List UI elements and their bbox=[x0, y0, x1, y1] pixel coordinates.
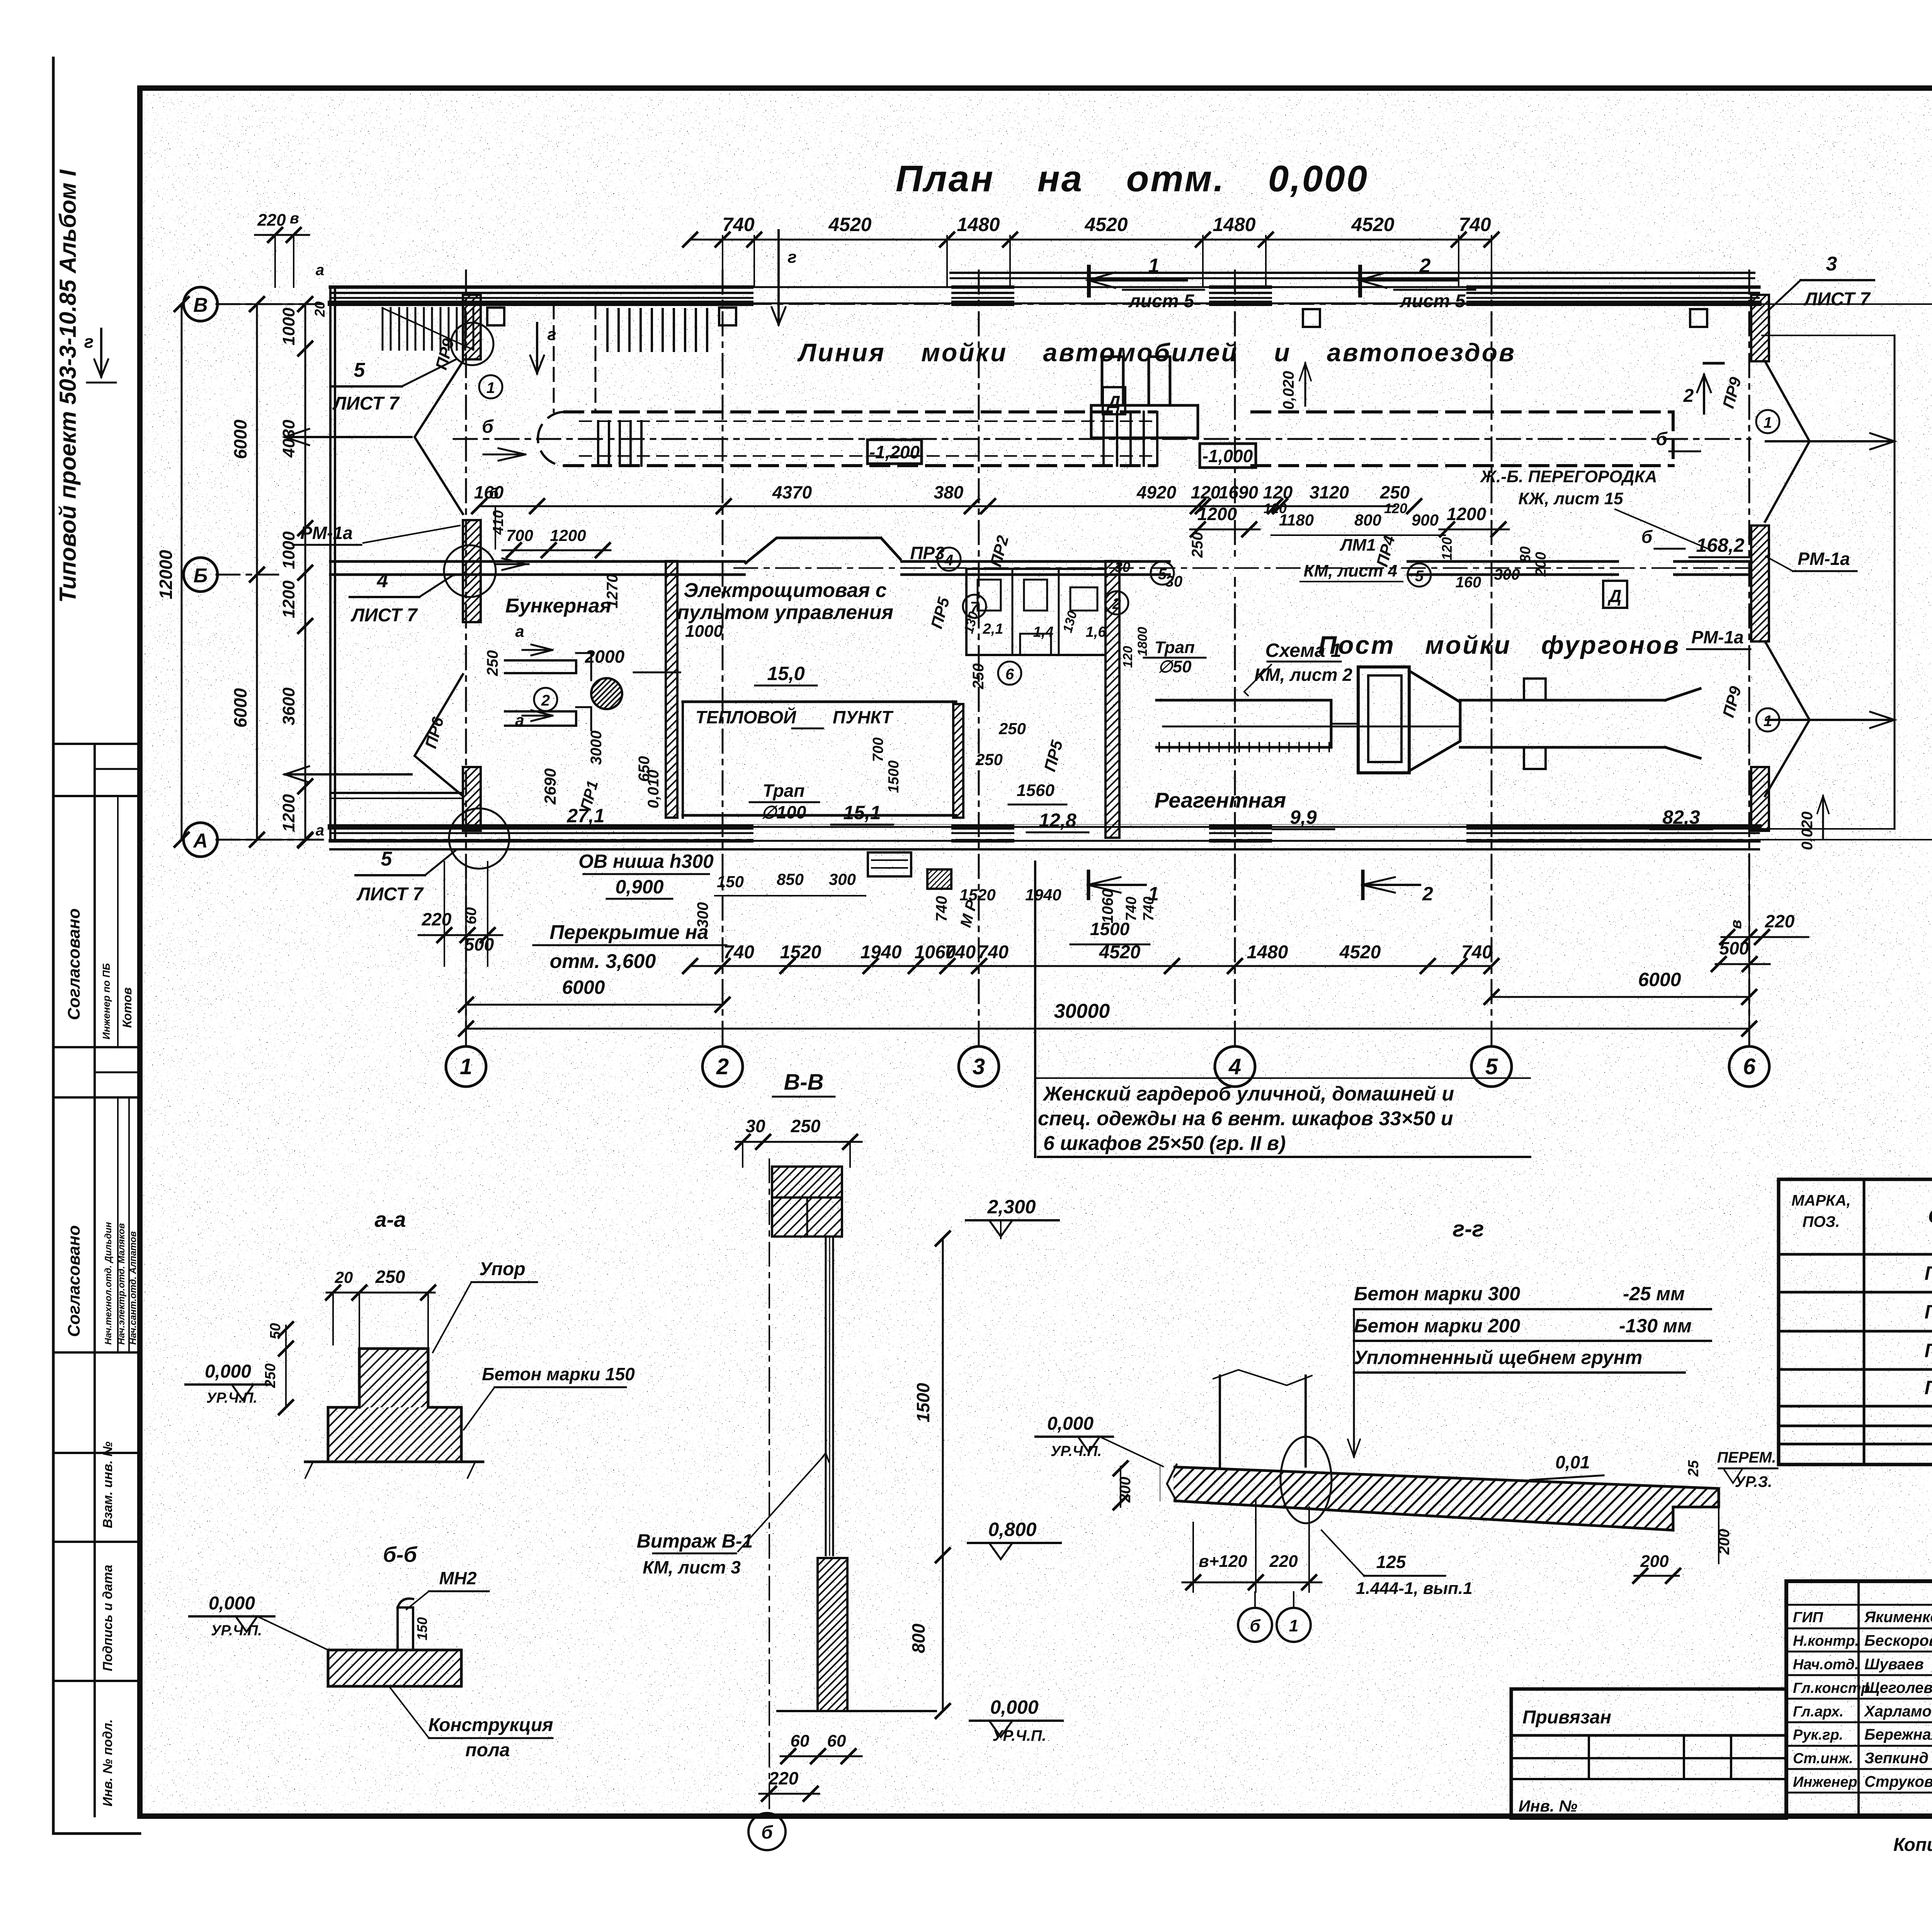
teplovoy punkt room walls bbox=[683, 701, 956, 703]
grid1 wall piers hatched bbox=[463, 295, 481, 359]
V-V vertical dims bbox=[942, 1238, 944, 1711]
svg-text:Типовой проект 503-3-10.85: Типовой проект 503-3-10.85 Альбом I bbox=[55, 169, 81, 603]
svg-text:г: г bbox=[84, 332, 94, 352]
left glazed wall vitrage bbox=[329, 287, 332, 841]
V-V axis dash-dot bbox=[769, 1159, 770, 1808]
gamma section down arrows bbox=[536, 323, 538, 373]
wash hall centerline bbox=[454, 438, 1750, 440]
b-b slab hatched bbox=[328, 1650, 461, 1686]
svg-text:Нач.технол.отд. Дильдин: Нач.технол.отд. Дильдин bbox=[103, 1222, 114, 1345]
top dim chain bbox=[690, 239, 1492, 241]
bottom 6000 dims bbox=[466, 1004, 723, 1006]
g-g legend leader bbox=[1353, 1309, 1355, 1457]
top wall bbox=[330, 286, 1759, 289]
upper-left small squares on wall bbox=[487, 308, 504, 325]
bottom 30000 dim bbox=[466, 1028, 1749, 1030]
g-g bubbles bbox=[1238, 1608, 1272, 1642]
pit vertical dashed connectors bbox=[553, 305, 555, 412]
door leaf PR3 bbox=[746, 538, 900, 563]
machine rect bbox=[1091, 405, 1198, 438]
svg-text:Нач.сант.отд. Алпатов: Нач.сант.отд. Алпатов bbox=[128, 1231, 138, 1345]
comb bar centerline link bbox=[1331, 723, 1358, 725]
bottom wall door gaps bbox=[753, 825, 951, 844]
row A and V dash-dot through building bbox=[330, 303, 1762, 305]
g-g wall above bbox=[1219, 1376, 1221, 1466]
reagent room comb bbox=[1156, 700, 1331, 747]
pit combs bbox=[606, 309, 609, 351]
svg-text:Согласовано: Согласовано bbox=[65, 908, 83, 1020]
svg-text:Копировал: Копировал bbox=[1893, 1835, 1932, 1855]
g-g detail ellipse bbox=[1281, 1437, 1332, 1523]
left strip stamp grid bbox=[94, 744, 96, 1816]
sections marks 1 2 below building bbox=[1088, 884, 1146, 886]
svg-text:Котов: Котов bbox=[120, 987, 134, 1028]
left drive arrows bbox=[285, 436, 412, 438]
bottom wall bbox=[330, 824, 1759, 830]
section 2 arrows bbox=[1703, 375, 1705, 413]
scan speckle noise bbox=[0, 0, 0, 0]
wash line dashed pit left part bbox=[565, 410, 1155, 413]
sanuzel block bbox=[966, 569, 1105, 655]
OV grate box right bbox=[868, 852, 911, 876]
middle wall row Б bbox=[330, 560, 1751, 563]
annex bottom edge line bbox=[332, 792, 463, 794]
interior wall x2861 vertical hatched bbox=[1105, 561, 1119, 838]
funnel washer bbox=[1358, 667, 1409, 773]
b-b upstand bbox=[398, 1607, 413, 1650]
svg-text:Согласовано: Согласовано bbox=[65, 1225, 83, 1337]
stairs in annex bbox=[382, 308, 384, 350]
column grid dash-dot lines bbox=[465, 270, 467, 1045]
MP box below wall bbox=[927, 869, 951, 889]
right wall piers hatched bbox=[1751, 295, 1769, 361]
svg-text:Инженер по ПБ: Инженер по ПБ bbox=[100, 963, 112, 1039]
V-V top column hatched bbox=[772, 1167, 842, 1197]
svg-text:б: б bbox=[761, 1822, 773, 1843]
rail pocket step shapes bbox=[1524, 679, 1546, 700]
right exit chevrons bbox=[1765, 361, 1810, 522]
conveyor channels bbox=[505, 660, 576, 673]
interior wall x1723 vertical hatched bbox=[666, 561, 677, 818]
funnel trapezoid bbox=[1409, 671, 1460, 771]
row Б dash-dot through openings bbox=[734, 567, 1751, 569]
g section arrow top-left bbox=[100, 329, 102, 377]
detail callout circles on grid1 wall bbox=[451, 323, 493, 365]
wash line inner dashed lines bbox=[580, 420, 1155, 422]
right drive arrows bbox=[1766, 440, 1893, 442]
sched door circles bbox=[479, 375, 502, 398]
row grid bubbles bbox=[184, 287, 218, 321]
-1,000 mark box bbox=[1200, 444, 1256, 468]
left margin strip outer line bbox=[52, 58, 55, 1834]
title block bbox=[1786, 1581, 1932, 1816]
top section flags 1 and 2 bbox=[1088, 279, 1187, 282]
row grid dash-dot lines bbox=[216, 303, 330, 305]
spec table bbox=[1779, 1179, 1932, 1465]
top wall door gaps (white) bbox=[753, 285, 951, 307]
svg-text:Нач.электр.отд. Маляков: Нач.электр.отд. Маляков bbox=[116, 1223, 127, 1345]
left dim chains bbox=[304, 304, 306, 840]
V-V vitrage double line bbox=[825, 1237, 827, 1555]
wash line dashed pit right part bbox=[1252, 410, 1673, 413]
bottom dim chains bbox=[690, 965, 1492, 967]
column grid bubbles bbox=[446, 1046, 486, 1087]
rails to right bbox=[1460, 699, 1665, 702]
D box marks bbox=[1103, 387, 1125, 414]
left entry chevrons bbox=[415, 361, 463, 514]
svg-text:Взам. инв. №: Взам. инв. № bbox=[100, 1441, 115, 1528]
svg-text:Подпись и дата: Подпись и дата bbox=[100, 1565, 115, 1671]
inner dim chain under hall bbox=[479, 505, 1395, 507]
V-V bubble б bbox=[748, 1813, 786, 1850]
svg-text:Инв. № подл.: Инв. № подл. bbox=[100, 1719, 115, 1806]
small bind table left of title block bbox=[1511, 1689, 1786, 1818]
-1,200 mark box bbox=[867, 440, 922, 464]
V-V bottom column hatched bbox=[818, 1558, 847, 1711]
a-a upor block hatched bbox=[328, 1349, 461, 1462]
a-a ground line bbox=[305, 1461, 483, 1463]
V-V base line bbox=[777, 1710, 936, 1712]
canopy line above top wall bbox=[951, 272, 1754, 274]
